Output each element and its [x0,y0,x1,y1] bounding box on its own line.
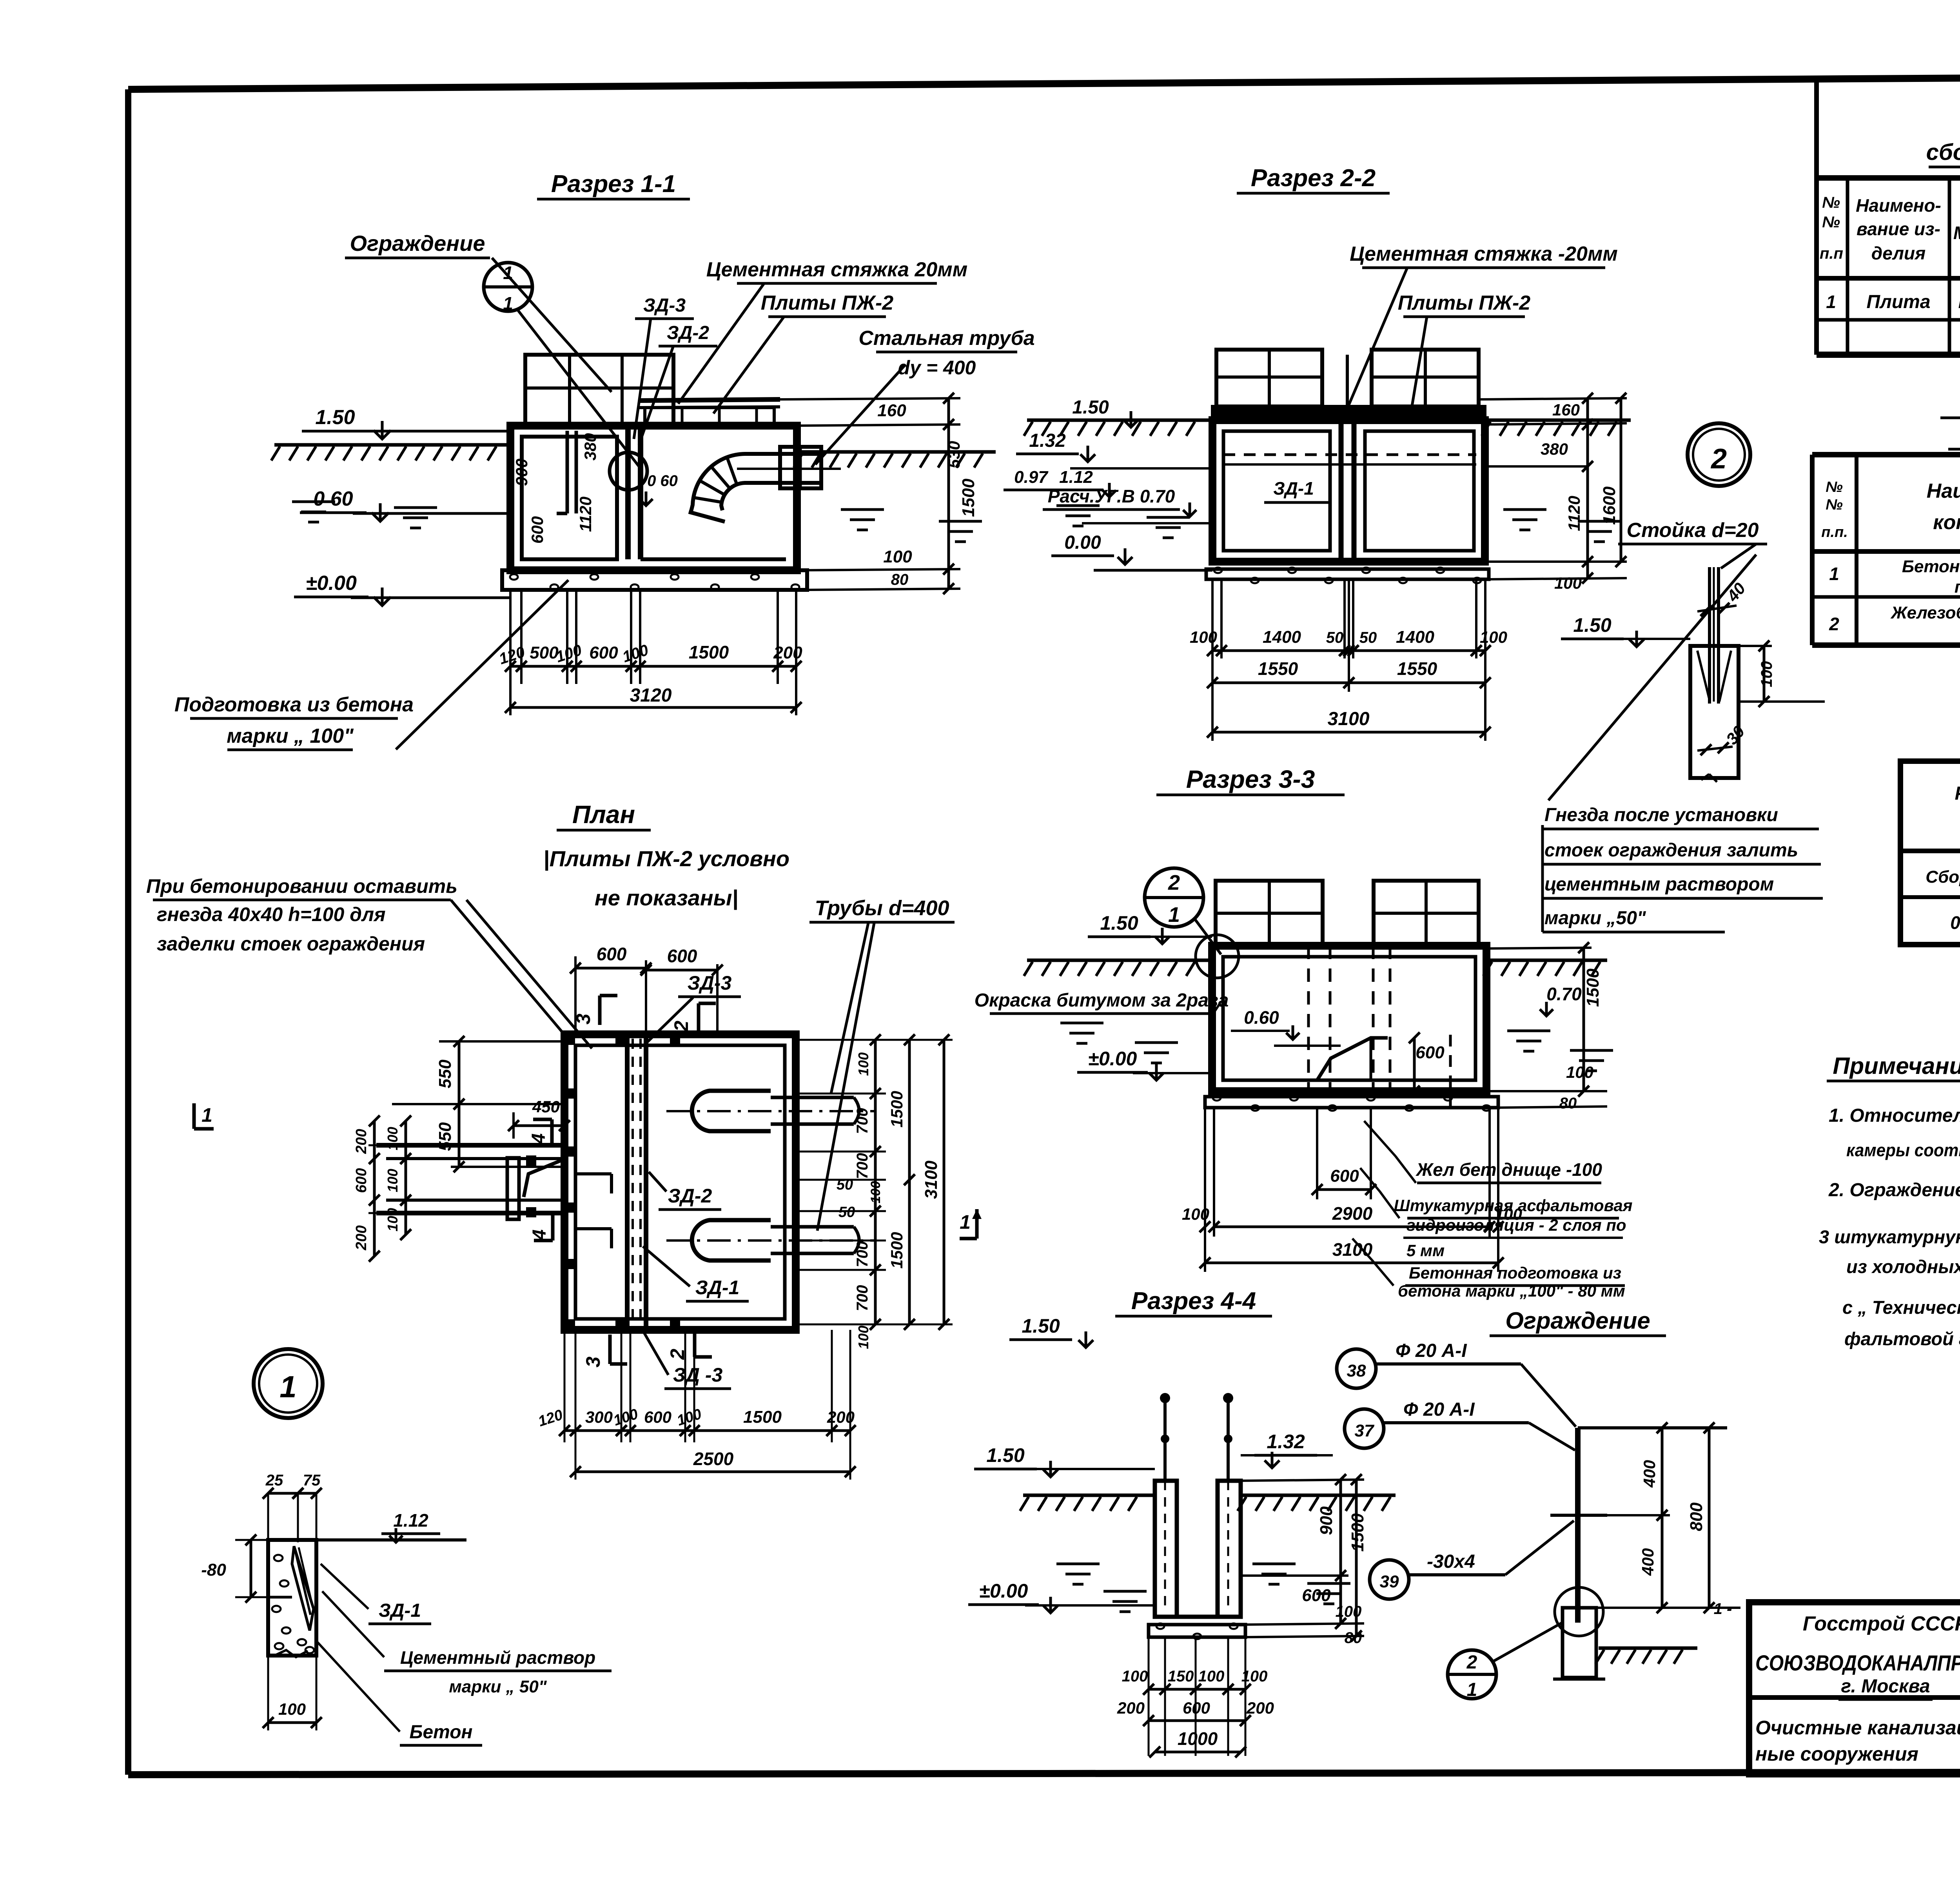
svg-text:0 60: 0 60 [647,472,678,490]
svg-text:1600: 1600 [1600,486,1619,525]
svg-text:1.32: 1.32 [1267,1431,1305,1453]
svg-text:цементным раствором: цементным раствором [1544,874,1774,895]
svg-text:Гнезда после установки: Гнезда после установки [1544,805,1778,825]
svg-text:75: 75 [303,1472,321,1489]
svg-text:80: 80 [891,571,909,588]
svg-text:марки „ 100": марки „ 100" [227,725,354,747]
svg-text:±0.00: ±0.00 [1088,1048,1137,1070]
svg-text:Бетонная подготовка: Бетонная подготовка [1902,557,1960,576]
svg-text:Цементная стяжка -20мм: Цементная стяжка -20мм [1350,243,1618,265]
svg-text:3100: 3100 [1328,709,1370,729]
chamber walls section 3-3 [1212,946,1486,1091]
svg-text:200: 200 [353,1225,370,1250]
svg-text:Ограждение: Ограждение [1505,1308,1650,1334]
callout note: fill sockets with mortar [1543,800,1827,941]
hatched wall with mortar wedge [268,1540,316,1656]
svg-text:1: 1 [503,293,513,314]
svg-text:2: 2 [1829,614,1839,634]
svg-text:1400: 1400 [1263,627,1301,647]
fence detail drawing [1337,1308,1740,1700]
svg-text:200: 200 [773,643,802,662]
dimensions bottom of section 2-2 [1211,579,1214,658]
svg-text:1: 1 [1168,903,1180,927]
dimensions bottom of section 3-3 [1316,1108,1318,1199]
svg-text:400: 400 [1639,1548,1657,1576]
section 3-3 drawing [975,765,1633,1300]
svg-text:1.32: 1.32 [1029,430,1066,451]
fence posts embedded [1163,1396,1167,1481]
svg-text:Разрез 3-3: Разрез 3-3 [1186,765,1315,793]
svg-text:25: 25 [265,1472,283,1489]
svg-text:под днище: под днище [1955,577,1960,597]
svg-text:делия: делия [1871,243,1926,263]
svg-text:100: 100 [1758,661,1775,687]
svg-text:37: 37 [1355,1421,1375,1440]
svg-text:1: 1 [279,1369,296,1404]
svg-text:ЗД-2: ЗД-2 [668,1185,712,1207]
svg-text:1.50: 1.50 [1072,397,1109,418]
svg-text:700: 700 [854,1108,871,1134]
svg-text:Подготовка из бетона: Подготовка из бетона [174,693,414,716]
inlet channel on plan left [376,1143,564,1148]
svg-text:2: 2 [1710,443,1727,475]
svg-text:Бетон: Бетон [409,1722,472,1743]
table: consumption of monolithic concrete [1812,388,1960,645]
svg-text:0.00: 0.00 [1064,532,1101,553]
svg-text:100: 100 [385,1169,401,1192]
svg-text:2500: 2500 [693,1449,734,1469]
svg-text:стоек ограждения залить: стоек ограждения залить [1544,840,1798,861]
svg-text:1500: 1500 [959,479,978,517]
svg-text:200: 200 [353,1129,370,1154]
svg-text:600: 600 [597,944,627,964]
svg-text:550: 550 [436,1059,455,1088]
svg-text:1500: 1500 [887,1232,906,1268]
svg-text:1500: 1500 [1583,968,1602,1007]
svg-text:160: 160 [877,401,906,420]
svg-text:Плиты ПЖ-2: Плиты ПЖ-2 [761,292,894,314]
svg-text:1.50: 1.50 [1100,912,1138,934]
section 2-2 drawing [1004,165,1750,741]
svg-text:200: 200 [1117,1699,1145,1717]
svg-text:200: 200 [1246,1699,1274,1717]
svg-text:380: 380 [581,433,599,461]
svg-text:530: 530 [945,441,963,468]
specification table of precast elements [1817,77,1960,355]
notes [1819,1053,1960,1373]
svg-text:500: 500 [530,643,559,662]
svg-text:Разрез 1-1: Разрез 1-1 [551,170,676,198]
svg-text:100: 100 [278,1700,306,1718]
svg-text:Госстрой СССР: Госстрой СССР [1803,1612,1960,1635]
svg-text:1.50: 1.50 [986,1444,1025,1466]
section 4-4 drawing [968,1288,1396,1757]
svg-text:100: 100 [1566,1063,1593,1081]
pipe sockets in plan [692,1091,771,1131]
svg-text:из холодных /эмульсионных/ м: из холодных /эмульсионных/ мастик в соот… [1846,1256,1960,1277]
svg-text:|Плиты ПЖ-2 условно: |Плиты ПЖ-2 условно [543,846,789,871]
svg-text:Ограждение: Ограждение [350,231,485,256]
svg-text:450: 450 [532,1097,560,1116]
svg-text:50: 50 [837,1177,853,1193]
svg-text:3100: 3100 [922,1161,941,1199]
svg-text:38: 38 [1347,1361,1366,1380]
svg-text:Сборного: Сборного [1926,867,1960,887]
channel walls section 4-4 [1155,1481,1177,1617]
svg-text:700: 700 [854,1285,871,1311]
svg-text:Стойка d=20: Стойка d=20 [1627,519,1759,542]
chamber walls section 2-2 [1212,420,1485,562]
svg-text:100: 100 [385,1127,401,1150]
wall node detail bottom left [201,1472,612,1745]
svg-text:0.97: 0.97 [1014,468,1049,487]
svg-text:ные сооружения: ные сооружения [1755,1743,1918,1765]
svg-text:СОЮЗВОДОКАНАЛПРОЕКТ: СОЮЗВОДОКАНАЛПРОЕКТ [1755,1650,1960,1675]
svg-text:dy = 400: dy = 400 [898,357,976,379]
plan view [146,800,982,1480]
svg-text:700: 700 [854,1241,871,1268]
svg-text:Стальная труба: Стальная труба [858,327,1034,350]
svg-text:1.50: 1.50 [1022,1315,1060,1337]
svg-text:50: 50 [838,1204,855,1221]
svg-text:Бетонная подготовка из: Бетонная подготовка из [1409,1264,1621,1282]
svg-text:-80: -80 [201,1560,226,1580]
svg-text:0,21: 0,21 [1950,912,1960,933]
svg-text:п.п: п.п [1820,245,1843,262]
svg-text:ЗД-1: ЗД-1 [1273,478,1314,499]
svg-text:50: 50 [1359,629,1377,646]
svg-text:1500: 1500 [887,1091,906,1127]
svg-text:гидроизоляция - 2 слоя по: гидроизоляция - 2 слоя по [1406,1216,1626,1234]
svg-text:Ф 20 А-I: Ф 20 А-I [1403,1399,1475,1420]
table: consumption of main materials [1900,690,1960,945]
svg-text:1550: 1550 [1258,658,1298,679]
svg-text:100: 100 [1182,1205,1209,1223]
svg-text:150: 150 [1168,1668,1194,1685]
dimensions bottom of plan [564,1330,566,1442]
svg-text:конструкций: конструкций [1933,511,1960,534]
svg-text:200: 200 [827,1408,855,1426]
svg-text:1550: 1550 [1397,658,1437,679]
svg-text:марки „50": марки „50" [1544,908,1646,929]
svg-text:Разрез 2-2: Разрез 2-2 [1251,165,1376,192]
svg-text:План: План [572,800,635,829]
svg-text:1120: 1120 [576,497,595,532]
svg-text:бетона марки „100" - 80 мм: бетона марки „100" - 80 мм [1398,1282,1625,1300]
svg-text:№: № [1822,214,1840,231]
svg-text:100: 100 [855,1052,871,1076]
svg-text:0.70: 0.70 [1546,984,1582,1004]
section 1-1 drawing [174,170,1035,750]
title block [1749,1602,1960,1810]
svg-text:100: 100 [1554,574,1582,592]
svg-text:400: 400 [1640,1460,1659,1488]
svg-text:ЗД-3: ЗД-3 [643,295,686,316]
svg-text:Железобетонные стены: Железобетонные стены [1890,603,1960,622]
svg-text:3 штукатурную асфальтовую: 3 штукатурную асфальтовую гидроизоляцию … [1819,1226,1960,1247]
svg-text:камеры соответствует абсолютн: камеры соответствует абсолютной отметке [1846,1140,1960,1160]
svg-text:Расход железобе-: Расход железобе- [1955,783,1960,804]
svg-text:1: 1 [201,1104,212,1126]
svg-text:ЗД-2: ЗД-2 [667,323,709,343]
svg-text:2: 2 [1466,1652,1477,1673]
svg-text:Ф 20 А-I: Ф 20 А-I [1396,1340,1467,1361]
svg-text:4: 4 [528,1133,549,1144]
svg-text:0.60: 0.60 [1244,1007,1279,1028]
svg-text:1.12: 1.12 [1059,468,1093,487]
svg-text:Трубы d=400: Трубы d=400 [815,896,949,920]
svg-text:заделки стоек ограждения: заделки стоек ограждения [157,933,425,955]
svg-text:100: 100 [1190,628,1217,646]
svg-text:1: 1 [1467,1679,1477,1700]
svg-text:1120: 1120 [1565,496,1583,531]
svg-text:Плита: Плита [1866,292,1930,312]
svg-text:300: 300 [585,1408,613,1426]
svg-text:900: 900 [512,459,531,486]
svg-text:с „ Техническими правилами у: с „ Техническими правилами устройство хо… [1842,1297,1960,1318]
svg-text:600: 600 [1330,1166,1359,1186]
svg-text:1: 1 [960,1211,971,1233]
svg-text:900: 900 [1317,1506,1336,1535]
svg-text:100: 100 [1198,1668,1225,1685]
svg-text:-30х4: -30х4 [1427,1551,1475,1572]
svg-text:ЗД-1: ЗД-1 [695,1277,740,1299]
svg-text:Цементная стяжка 20мм: Цементная стяжка 20мм [706,258,967,281]
svg-text:марки „ 50": марки „ 50" [449,1677,547,1696]
socket dots on plan walls [565,1035,575,1045]
svg-text:100: 100 [883,547,912,566]
svg-text:1: 1 [503,263,513,283]
svg-text:600: 600 [1302,1586,1331,1605]
fence post [1575,1428,1581,1623]
dimensions bottom of section 1-1 [509,590,512,684]
svg-text:1: 1 [1829,564,1839,584]
svg-text:50: 50 [1326,629,1344,646]
svg-text:1 -: 1 - [1714,1600,1732,1618]
svg-text:1.50: 1.50 [1573,614,1612,636]
svg-text:Наименование: Наименование [1927,480,1960,502]
svg-text:1500: 1500 [743,1407,782,1427]
svg-text:гнезда 40х40 h=100 для: гнезда 40х40 h=100 для [157,903,386,925]
svg-text:Жел бет днище -100: Жел бет днище -100 [1416,1159,1602,1180]
svg-text:4: 4 [529,1230,550,1240]
svg-text:При бетонировании оставить: При бетонировании оставить [146,875,457,897]
svg-text:Штукатурная асфальтовая: Штукатурная асфальтовая [1394,1196,1633,1215]
svg-text:1: 1 [1826,292,1836,312]
svg-text:100: 100 [868,1181,883,1204]
svg-text:ПЖ-2: ПЖ-2 [1958,292,1960,312]
svg-text:Разрез 4-4: Разрез 4-4 [1131,1288,1256,1315]
svg-text:2900: 2900 [1332,1203,1373,1224]
svg-text:№: № [1826,497,1843,513]
fence post socket detail (Стойка d=20) [1543,519,1827,941]
svg-text:№: № [1822,194,1840,211]
svg-text:№: № [1826,479,1843,495]
svg-text:600: 600 [589,643,618,662]
svg-text:ЗД-1: ЗД-1 [379,1600,421,1621]
svg-text:±0.00: ±0.00 [306,572,357,595]
svg-text:вание из-: вание из- [1857,219,1940,239]
svg-text:г. Москва: г. Москва [1841,1676,1930,1697]
svg-text:2. Ограждение окрасить кузба: 2. Ограждение окрасить кузбасским лаком … [1828,1180,1960,1201]
svg-text:Плиты ПЖ-2: Плиты ПЖ-2 [1398,292,1531,314]
svg-text:380: 380 [1541,440,1568,458]
svg-text:700: 700 [854,1153,871,1179]
svg-text:3: 3 [582,1357,604,1367]
svg-text:39: 39 [1380,1572,1399,1591]
steel pipe dy=400 elbow [691,454,821,513]
svg-text:100: 100 [855,1326,871,1349]
svg-text:100: 100 [1480,628,1507,646]
svg-text:Цементный раствор: Цементный раствор [400,1647,595,1668]
svg-text:0 60: 0 60 [313,488,353,510]
svg-text:1500: 1500 [689,642,729,662]
svg-text:600: 600 [528,516,546,544]
svg-text:сборных железобетонных элеме: сборных железобетонных элементов [1926,140,1960,165]
svg-text:600: 600 [1416,1043,1445,1062]
svg-text:1400: 1400 [1396,627,1434,647]
svg-text:Окраска битумом за 2раза: Окраска битумом за 2раза [975,990,1229,1011]
svg-text:80: 80 [1559,1095,1577,1112]
svg-text:Расч.УГ.В 0.70: Расч.УГ.В 0.70 [1048,486,1175,506]
svg-text:100: 100 [385,1208,401,1231]
svg-text:Наимено-: Наимено- [1856,195,1941,216]
svg-text:1.12: 1.12 [393,1510,428,1531]
svg-text:600: 600 [1183,1699,1210,1717]
svg-text:5 мм: 5 мм [1406,1241,1445,1260]
svg-text:Марка: Марка [1953,223,1960,243]
svg-text:1.50: 1.50 [315,406,355,429]
svg-text:100: 100 [1241,1668,1268,1685]
chamber walls section 1-1 [510,426,797,570]
svg-text:600: 600 [667,946,697,966]
svg-text:160: 160 [1552,401,1580,419]
svg-text:ЗД-3: ЗД-3 [688,972,732,994]
svg-text:ЗД -3: ЗД -3 [673,1364,723,1386]
svg-text:1000: 1000 [1178,1728,1218,1749]
svg-text:2: 2 [670,1021,692,1032]
svg-text:±0.00: ±0.00 [979,1580,1028,1602]
dimensions right of plan [796,1039,886,1041]
svg-text:1. Относительная отметка ± 0.: 1. Относительная отметка ± 0.00 Верха дн… [1829,1105,1960,1126]
svg-text:фальтовой гидроизолтции, и: фальтовой гидроизолтции, и безрулонных к… [1844,1328,1960,1349]
svg-text:Очистные канализацион-: Очистные канализацион- [1755,1717,1960,1739]
svg-text:Примечания:: Примечания: [1833,1053,1960,1079]
svg-text:100: 100 [1122,1668,1148,1685]
svg-text:550: 550 [436,1122,455,1151]
svg-text:не показаны|: не показаны| [595,885,738,910]
dimensions bottom of section 4-4 [1148,1637,1150,1756]
svg-text:3100: 3100 [1332,1239,1373,1260]
svg-text:3120: 3120 [630,685,672,706]
svg-text:2: 2 [1168,871,1180,894]
svg-text:600: 600 [644,1408,671,1426]
plan chamber walls [564,1034,796,1330]
svg-text:800: 800 [1687,1502,1706,1531]
svg-text:600: 600 [353,1168,370,1193]
svg-text:п.п.: п.п. [1821,524,1848,540]
